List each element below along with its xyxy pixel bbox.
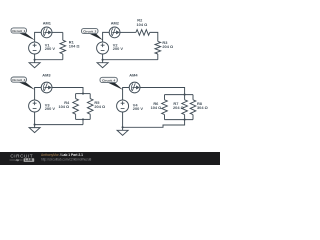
wire bank4 bottom bar [165,119,194,121]
ground GND2 [97,60,108,68]
wire AM2 to R2 [120,31,136,33]
svg-text:200 V: 200 V [113,46,124,51]
junction circuit3 ground node [34,124,36,126]
wire AM1 to R1 corner [52,31,63,33]
resistor R4 [73,99,79,115]
wire circuit2 bottom rail [103,59,158,61]
voltage source V2 [97,42,109,54]
voltage source V4 [117,100,129,112]
svg-text:200 V: 200 V [45,106,56,111]
junction circuit4 ground node [122,126,124,128]
svg-text:Circuit_2: Circuit_2 [83,29,96,33]
node label Circuit_1 [11,28,35,40]
ammeter AM3 [41,82,52,93]
svg-text:204 Ω: 204 Ω [94,104,105,109]
svg-text:AM2: AM2 [111,21,120,26]
svg-text:AM4: AM4 [129,72,138,77]
node label Circuit_2 [82,28,104,40]
wire V2 bottom [102,54,104,60]
wire R4 top lead [75,94,77,99]
svg-text:204 Ω: 204 Ω [173,105,184,110]
wire circuit1 bottom rail [35,59,63,61]
svg-text:Circuit_3: Circuit_3 [12,78,25,82]
junction bank top junction [82,93,84,95]
wire V3 bottom [34,112,36,125]
wire bank to rail [82,119,84,124]
wire AM4 to bank [140,88,185,95]
junction bank bottom junction [82,118,84,120]
wire bank4 top bar [165,94,194,96]
footer bar [0,152,220,165]
wire R1 bottom lead [62,54,64,60]
junction circuit2 ground node [102,59,104,61]
footer logo CIRCUIT LAB [10,154,35,163]
junction circuit1 ground node [34,59,36,61]
resistor R5 [87,99,93,115]
node label Circuit_4 [100,77,123,90]
svg-text:200 V: 200 V [45,46,56,51]
wire V2 top to AM2 [103,32,110,42]
svg-text:Circuit_4: Circuit_4 [102,78,115,82]
resistor R7 [182,100,188,115]
svg-text:200 V: 200 V [133,106,144,111]
ammeter AM1 [41,27,52,38]
wire V3 top to AM3 [35,88,42,101]
svg-text:AM3: AM3 [42,72,51,77]
svg-text:104 Ω: 104 Ω [69,43,80,48]
wire V4 top to AM4 [123,88,130,101]
wire bank top bar [76,93,91,95]
wire V1 top to AM1 [35,32,42,42]
wire V1 bottom [34,54,36,60]
resistor R8 [190,100,196,115]
wire R5 bottom lead [89,114,91,119]
svg-text:http://circuitlab.com/c2rkbmdr: http://circuitlab.com/c2rkbmdrhuzu8 [41,157,92,161]
wire circuit3 bottom rail [35,124,83,126]
wire R6 top lead [164,95,166,100]
svg-text:Circuit_1: Circuit_1 [12,29,25,33]
resistor R1 [60,40,66,54]
svg-text:104 Ω: 104 Ω [58,104,69,109]
ground GND3 [29,125,40,133]
resistor R2 [136,30,150,36]
wire R6 bottom lead [164,115,166,120]
wire R7 top lead [184,95,186,100]
voltage source V3 [29,100,41,112]
svg-text:304 Ω: 304 Ω [197,105,208,110]
wire bank4 to V4 rail [123,120,185,128]
wire bank bottom bar [76,118,91,120]
wire V4 bottom [122,112,124,127]
wire R8 top lead [192,95,194,100]
wire AM3 to parallel bank [52,88,83,94]
junction bank4 bottom junction [184,119,186,121]
svg-text:104 Ω: 104 Ω [151,105,162,110]
wire R2 to R3 corner [150,32,158,41]
svg-text:204 Ω: 204 Ω [162,44,173,49]
svg-text:AM1: AM1 [43,21,52,26]
ammeter AM2 [109,27,120,38]
ground GND4 [117,127,128,135]
voltage source V1 [29,42,41,54]
junction bank4 top junction [184,94,186,96]
svg-text:LAB: LAB [25,158,33,162]
wire R3 bottom lead [157,54,159,60]
ammeter AM4 [129,82,140,93]
wire R1 top lead [62,32,64,40]
node label Circuit_3 [11,77,35,90]
wire R7 bottom lead [184,115,186,120]
wire R5 top lead [89,94,91,99]
ground GND1 [29,60,40,68]
resistor R6 [162,100,168,115]
svg-text:104 Ω: 104 Ω [137,22,148,27]
resistor R3 [155,41,161,54]
wire R4 bottom lead [75,114,77,119]
wire R8 bottom lead [192,115,194,120]
